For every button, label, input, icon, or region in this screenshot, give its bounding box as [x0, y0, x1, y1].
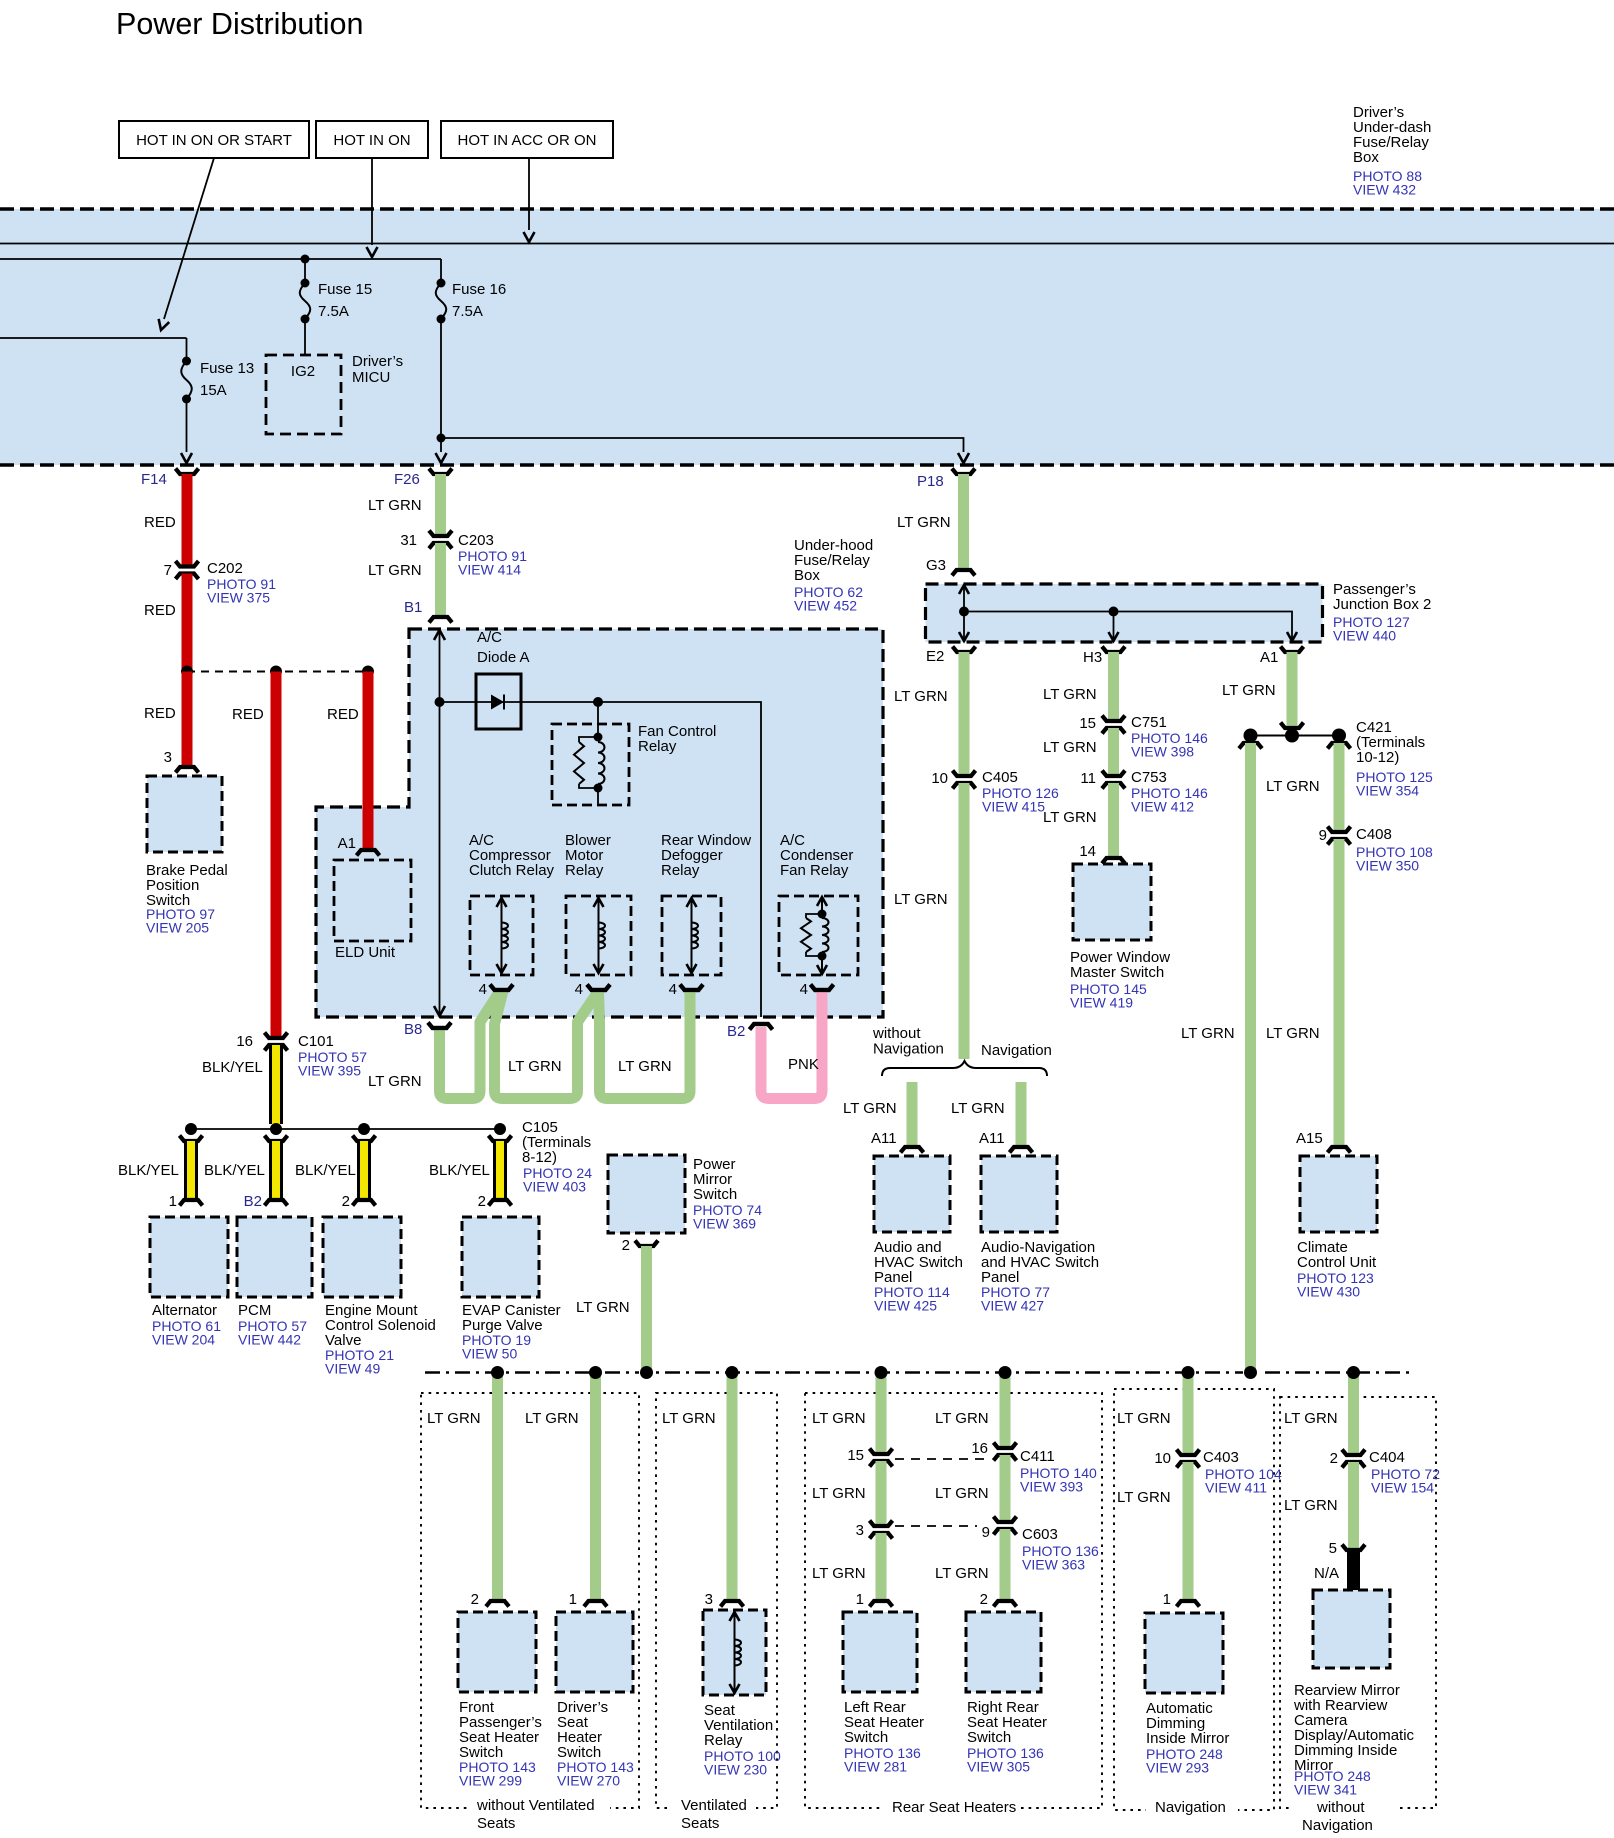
svg-text:LT GRN: LT GRN — [812, 1485, 866, 1502]
svg-text:F14: F14 — [141, 471, 167, 488]
A/C diode A box — [476, 674, 521, 729]
svg-text:Seats: Seats — [477, 1815, 515, 1832]
wire PNK U4 relay4 to B2 — [761, 990, 822, 1099]
svg-text:RED: RED — [144, 602, 176, 619]
fuse 13 15A — [186, 338, 188, 359]
audio-navigation and HVAC switch panel box — [981, 1156, 1057, 1232]
wire LT GRN to seat ventilation relay — [727, 1372, 738, 1600]
svg-text:LT GRN: LT GRN — [1043, 686, 1097, 703]
wire LT GRN C404 to pin 5 — [1348, 1462, 1359, 1550]
svg-text:VIEW 281: VIEW 281 — [844, 1759, 907, 1775]
group box Ventilated Seats — [656, 1393, 777, 1808]
wire BLK/YEL branch 2 — [269, 1141, 283, 1199]
A/C compressor clutch relay box — [470, 896, 533, 975]
svg-text:LT GRN: LT GRN — [1117, 1489, 1171, 1506]
svg-text:C408: C408 — [1356, 826, 1392, 843]
svg-text:LT GRN: LT GRN — [427, 1410, 481, 1427]
svg-text:A1: A1 — [1260, 649, 1278, 666]
C105 branch dot 2 — [270, 1123, 282, 1135]
svg-text:15: 15 — [847, 1447, 864, 1464]
svg-text:10: 10 — [931, 770, 948, 787]
svg-text:LT GRN: LT GRN — [508, 1058, 562, 1075]
bus junction dot 8 — [1244, 1366, 1257, 1379]
svg-text:LT GRN: LT GRN — [1043, 739, 1097, 756]
svg-text:Ventilated: Ventilated — [681, 1797, 747, 1814]
svg-text:16: 16 — [236, 1033, 253, 1050]
bus crossing halo C421 wire — [1243, 1365, 1259, 1380]
junction box internal wires — [963, 585, 965, 641]
power window master switch box — [1073, 864, 1151, 940]
svg-text:1: 1 — [169, 1193, 177, 1210]
svg-text:4: 4 — [479, 981, 487, 998]
svg-text:VIEW 395: VIEW 395 — [298, 1063, 361, 1079]
svg-text:VIEW 299: VIEW 299 — [459, 1773, 522, 1789]
bus junction dot 3 — [640, 1366, 653, 1379]
svg-text:LT GRN: LT GRN — [1284, 1410, 1338, 1427]
svg-text:HOT IN ON: HOT IN ON — [333, 132, 410, 149]
svg-text:Fuse 16: Fuse 16 — [452, 281, 506, 298]
fan control relay box — [552, 724, 629, 805]
svg-text:LT GRN: LT GRN — [894, 688, 948, 705]
svg-text:VIEW 305: VIEW 305 — [967, 1759, 1030, 1775]
box HOT IN ON — [316, 121, 428, 158]
svg-text:A/C: A/C — [477, 629, 502, 646]
svg-text:Junction Box 2: Junction Box 2 — [1333, 596, 1431, 613]
svg-text:VIEW 398: VIEW 398 — [1131, 744, 1194, 760]
svg-text:ELD Unit: ELD Unit — [335, 944, 396, 961]
bus junction dot 7 — [1182, 1366, 1195, 1379]
svg-text:BLK/YEL: BLK/YEL — [202, 1059, 263, 1076]
svg-text:2: 2 — [622, 1237, 630, 1254]
arrow HOT IN ACC OR ON to bus 1 — [528, 158, 530, 230]
svg-text:VIEW 403: VIEW 403 — [523, 1179, 586, 1195]
front passenger seat heater switch box — [458, 1612, 536, 1692]
bus junction dot 6 — [999, 1366, 1012, 1379]
IG2 box Driver's MICU — [266, 355, 341, 434]
svg-text:MICU: MICU — [352, 369, 390, 386]
bus junction dot 1 — [491, 1366, 504, 1379]
wire BLK/YEL branch 1 — [184, 1141, 198, 1199]
band top dashed border — [0, 207, 1614, 210]
wire LT GRN C421 to C408 — [1334, 743, 1345, 832]
alternator box — [150, 1217, 228, 1297]
right rear seat heater switch box — [966, 1612, 1041, 1692]
svg-text:Navigation: Navigation — [873, 1041, 944, 1058]
arrow HOT IN ON to bus 2 — [371, 158, 373, 245]
band bottom dashed border — [0, 463, 1614, 466]
C105 branch dot 1 — [185, 1123, 197, 1135]
svg-text:Alternator: Alternator — [152, 1302, 217, 1319]
wire LT GRN C405 to nav split — [959, 783, 970, 1059]
svg-text:C403: C403 — [1203, 1449, 1239, 1466]
wire LT GRN to C411 pin 15 — [876, 1372, 887, 1454]
svg-text:C101: C101 — [298, 1033, 334, 1050]
svg-text:Switch: Switch — [967, 1729, 1011, 1746]
svg-text:LT GRN: LT GRN — [1266, 778, 1320, 795]
fuse 15 7.5A — [301, 255, 310, 264]
wire LT GRN C421 to bus — [1245, 743, 1256, 1372]
wire LT GRN U2 relay1 to relay2 pin4 — [495, 991, 599, 1099]
bus line 1 (ACC) — [0, 243, 1614, 245]
audio and HVAC switch panel box — [874, 1156, 950, 1232]
wire LT GRN to C411 pin 16 — [1000, 1372, 1011, 1448]
connector C411 pin 15 — [870, 1449, 893, 1455]
C105 branch connector 2 — [265, 1136, 288, 1142]
svg-text:Box: Box — [794, 567, 820, 584]
svg-text:3: 3 — [164, 749, 172, 766]
bus line 2 (IGN) — [0, 258, 441, 260]
svg-text:C411: C411 — [1020, 1448, 1055, 1465]
wire LT GRN to C403 — [1183, 1372, 1194, 1455]
wire N/A black to rearview mirror — [1347, 1550, 1360, 1592]
svg-text:11: 11 — [1080, 770, 1096, 787]
power mirror switch box — [608, 1155, 685, 1233]
svg-text:LT GRN: LT GRN — [576, 1299, 630, 1316]
under-dash fuse/relay box band — [0, 209, 1614, 465]
svg-text:15A: 15A — [200, 382, 227, 399]
seat ventilation relay box — [703, 1610, 766, 1695]
svg-text:10: 10 — [1154, 1450, 1171, 1467]
svg-text:VIEW 50: VIEW 50 — [462, 1346, 517, 1362]
svg-text:LT GRN: LT GRN — [843, 1100, 897, 1117]
svg-text:VIEW 393: VIEW 393 — [1020, 1479, 1083, 1495]
svg-text:B2: B2 — [727, 1023, 745, 1040]
svg-text:LT GRN: LT GRN — [368, 497, 422, 514]
connector C405 pin 10 — [953, 771, 976, 777]
C105 branch dot 3 — [358, 1123, 370, 1135]
brake pedal position switch box — [147, 776, 222, 852]
automatic dimming inside mirror box — [1145, 1613, 1223, 1693]
svg-text:VIEW 375: VIEW 375 — [207, 590, 270, 606]
svg-text:31: 31 — [400, 532, 417, 549]
svg-text:BLK/YEL: BLK/YEL — [118, 1162, 179, 1179]
svg-text:P18: P18 — [917, 473, 944, 490]
svg-text:C405: C405 — [982, 769, 1018, 786]
wire B1 to B8 internal — [439, 630, 441, 1016]
svg-text:VIEW 363: VIEW 363 — [1022, 1557, 1085, 1573]
svg-text:LT GRN: LT GRN — [1117, 1410, 1171, 1427]
diode symbol — [491, 695, 504, 710]
svg-text:VIEW 49: VIEW 49 — [325, 1361, 380, 1377]
svg-text:Switch: Switch — [693, 1186, 737, 1203]
svg-text:4: 4 — [575, 981, 583, 998]
svg-text:A11: A11 — [871, 1130, 897, 1147]
svg-text:PCM: PCM — [238, 1302, 271, 1319]
svg-text:16: 16 — [971, 1440, 988, 1457]
svg-text:VIEW 440: VIEW 440 — [1333, 628, 1396, 644]
svg-text:IG2: IG2 — [291, 363, 315, 380]
junction dot C — [362, 666, 374, 678]
svg-text:Fan Relay: Fan Relay — [780, 862, 849, 879]
svg-text:3: 3 — [705, 1591, 713, 1608]
svg-text:Control Unit: Control Unit — [1297, 1254, 1377, 1271]
engine mount control solenoid valve box — [323, 1217, 401, 1297]
svg-text:Switch: Switch — [844, 1729, 888, 1746]
C105 branch connector 3 — [353, 1136, 376, 1142]
svg-text:3: 3 — [856, 1522, 864, 1539]
svg-text:LT GRN: LT GRN — [525, 1410, 579, 1427]
wire BLK/YEL C101 to C105 line — [269, 1045, 283, 1124]
wire RED C202 to junction — [182, 574, 193, 672]
svg-text:B2: B2 — [244, 1193, 262, 1210]
bracket overdraw B8 — [428, 1023, 451, 1029]
dashed link C603 — [895, 1525, 977, 1527]
svg-text:VIEW 419: VIEW 419 — [1070, 995, 1133, 1011]
rear window defogger relay box — [662, 896, 721, 975]
svg-text:10-12): 10-12) — [1356, 749, 1399, 766]
svg-text:Fuse 13: Fuse 13 — [200, 360, 254, 377]
svg-text:C203: C203 — [458, 532, 494, 549]
svg-text:A11: A11 — [979, 1130, 1005, 1147]
svg-text:7.5A: 7.5A — [318, 303, 349, 320]
navigation split brace — [882, 1061, 1047, 1076]
svg-text:B8: B8 — [404, 1021, 422, 1038]
connector C404 pin 2 — [1342, 1450, 1365, 1456]
svg-text:14: 14 — [1079, 843, 1096, 860]
wire LT GRN C203 to B1 — [435, 543, 446, 617]
internal wire to A/C condenser branch — [440, 702, 762, 1017]
fuse 16 7.5A — [440, 259, 442, 281]
svg-text:BLK/YEL: BLK/YEL — [204, 1162, 265, 1179]
svg-text:Diode A: Diode A — [477, 649, 530, 666]
svg-text:Inside Mirror: Inside Mirror — [1146, 1730, 1229, 1747]
svg-text:Navigation: Navigation — [1155, 1799, 1226, 1816]
wire LT GRN to audio-nav hvac panel A11 — [1016, 1082, 1027, 1146]
C105 branch dot 4 — [494, 1123, 506, 1135]
svg-text:LT GRN: LT GRN — [618, 1058, 672, 1075]
svg-text:without: without — [872, 1025, 921, 1042]
svg-text:C603: C603 — [1022, 1526, 1058, 1543]
svg-text:A15: A15 — [1296, 1130, 1323, 1147]
svg-text:RED: RED — [232, 706, 264, 723]
svg-text:VIEW 270: VIEW 270 — [557, 1773, 620, 1789]
svg-text:VIEW 412: VIEW 412 — [1131, 799, 1194, 815]
svg-text:HOT IN ON OR START: HOT IN ON OR START — [136, 132, 292, 149]
svg-text:8-12): 8-12) — [522, 1149, 557, 1166]
connector C751 pin 15 — [1102, 716, 1125, 722]
wire LT GRN C603-9 to right rear switch — [1000, 1529, 1011, 1600]
svg-text:Power Distribution: Power Distribution — [116, 7, 364, 41]
svg-text:VIEW 442: VIEW 442 — [238, 1332, 301, 1348]
svg-text:N/A: N/A — [1314, 1565, 1339, 1582]
wire LT GRN power mirror to bus — [641, 1246, 652, 1372]
svg-text:15: 15 — [1079, 715, 1096, 732]
wire LT GRN A1 to C421 — [1287, 652, 1298, 727]
driver's seat heater switch box — [556, 1612, 633, 1692]
svg-text:LT GRN: LT GRN — [935, 1565, 989, 1582]
svg-text:9: 9 — [1319, 827, 1327, 844]
svg-text:LT GRN: LT GRN — [812, 1410, 866, 1427]
svg-text:Master Switch: Master Switch — [1070, 964, 1164, 981]
svg-text:Navigation: Navigation — [1302, 1817, 1373, 1834]
bus line 3 (start) — [0, 337, 187, 339]
rearview mirror box — [1313, 1590, 1390, 1668]
svg-text:LT GRN: LT GRN — [368, 562, 422, 579]
wire LT GRN to C404 — [1348, 1372, 1359, 1455]
dashed link C411 — [895, 1458, 990, 1460]
svg-text:1: 1 — [856, 1591, 864, 1608]
svg-text:7.5A: 7.5A — [452, 303, 483, 320]
bus junction dot 4 — [726, 1366, 739, 1379]
ELD unit box — [334, 860, 411, 941]
svg-text:HOT IN ACC OR ON: HOT IN ACC OR ON — [458, 132, 597, 149]
junction dot B — [270, 666, 282, 678]
wire LT GRN to driver's seat heater switch — [590, 1372, 601, 1600]
svg-text:Navigation: Navigation — [981, 1042, 1052, 1059]
svg-text:VIEW 354: VIEW 354 — [1356, 783, 1419, 799]
svg-text:LT GRN: LT GRN — [1181, 1025, 1235, 1042]
connector C753 pin 11 — [1102, 771, 1125, 777]
group box Rear Seat Heaters — [805, 1393, 1102, 1808]
wire LT GRN C411-15 to C603-3 — [876, 1461, 887, 1526]
wire RED to ELD pin A1 — [363, 672, 374, 847]
svg-text:LT GRN: LT GRN — [812, 1565, 866, 1582]
wire LT GRN H3 to C751 — [1108, 652, 1119, 721]
svg-text:VIEW 230: VIEW 230 — [704, 1762, 767, 1778]
svg-text:Driver’s: Driver’s — [352, 353, 403, 370]
svg-text:RED: RED — [144, 514, 176, 531]
svg-text:VIEW 432: VIEW 432 — [1353, 182, 1416, 198]
connector C411 pin 16 — [994, 1443, 1017, 1449]
svg-text:5: 5 — [1329, 1540, 1337, 1557]
connector C203 pin 31 — [429, 531, 452, 537]
svg-text:1: 1 — [569, 1591, 577, 1608]
wire LT GRN F26 to C203 — [435, 474, 446, 536]
svg-text:VIEW 204: VIEW 204 — [152, 1332, 215, 1348]
bus junction dot 9 — [1347, 1366, 1360, 1379]
group box without Ventilated Seats — [421, 1393, 639, 1808]
wire fuse16 to P18 drop — [437, 434, 446, 443]
svg-text:G3: G3 — [926, 557, 946, 574]
connector C603 pin 9 — [994, 1517, 1017, 1523]
svg-text:LT GRN: LT GRN — [1266, 1025, 1320, 1042]
A/C condenser fan relay box — [779, 896, 858, 975]
svg-text:BLK/YEL: BLK/YEL — [295, 1162, 356, 1179]
svg-text:without Ventilated: without Ventilated — [476, 1797, 595, 1814]
wire LT GRN C753 to power window master switch — [1108, 783, 1119, 857]
svg-text:C202: C202 — [207, 560, 243, 577]
svg-text:RED: RED — [327, 706, 359, 723]
wire LT GRN C603-3 to left rear switch — [876, 1533, 887, 1600]
bracket overdraw B2 — [750, 1024, 773, 1030]
svg-text:LT GRN: LT GRN — [935, 1410, 989, 1427]
svg-text:LT GRN: LT GRN — [1043, 809, 1097, 826]
svg-text:LT GRN: LT GRN — [1222, 682, 1276, 699]
svg-text:2: 2 — [342, 1193, 350, 1210]
svg-text:2: 2 — [1330, 1450, 1338, 1467]
svg-text:Fuse 15: Fuse 15 — [318, 281, 372, 298]
bracket overdraw relay pins 4 — [490, 985, 513, 991]
arrow HOT IN ON OR START to bus 3 — [164, 158, 214, 319]
svg-text:7: 7 — [164, 562, 172, 579]
svg-text:VIEW 411: VIEW 411 — [1205, 1480, 1267, 1496]
svg-text:Box: Box — [1353, 149, 1379, 166]
svg-text:Clutch Relay: Clutch Relay — [469, 862, 555, 879]
group box Navigation — [1114, 1389, 1274, 1810]
left rear seat heater switch box — [843, 1612, 917, 1692]
svg-text:Relay: Relay — [638, 738, 677, 755]
C105 branch connector 1 — [180, 1136, 203, 1142]
svg-text:LT GRN: LT GRN — [935, 1485, 989, 1502]
svg-text:VIEW 414: VIEW 414 — [458, 562, 521, 578]
svg-text:VIEW 415: VIEW 415 — [982, 799, 1045, 815]
svg-text:H3: H3 — [1083, 649, 1102, 666]
climate control unit box — [1300, 1156, 1377, 1232]
svg-text:RED: RED — [144, 705, 176, 722]
svg-text:BLK/YEL: BLK/YEL — [429, 1162, 490, 1179]
wire RED to C101 — [271, 672, 282, 1039]
svg-text:PNK: PNK — [788, 1056, 819, 1073]
svg-text:VIEW 430: VIEW 430 — [1297, 1284, 1360, 1300]
connector C202 pin 7 — [176, 561, 199, 567]
dashed junction link — [187, 671, 368, 673]
group box without Navigation — [1280, 1397, 1436, 1808]
svg-text:4: 4 — [800, 981, 808, 998]
svg-text:1: 1 — [1163, 1591, 1171, 1608]
svg-text:C753: C753 — [1131, 769, 1167, 786]
svg-text:2: 2 — [478, 1193, 486, 1210]
bus junction dot 2 — [589, 1366, 602, 1379]
wire RED into ELD extension — [363, 800, 374, 850]
wire LT GRN U3 relay2 to relay3 pin4 — [599, 991, 691, 1099]
connector C408 pin 9 — [1328, 827, 1351, 833]
C105 branch connector 4 — [489, 1136, 512, 1142]
svg-text:VIEW 205: VIEW 205 — [146, 920, 209, 936]
svg-text:LT GRN: LT GRN — [1284, 1497, 1338, 1514]
svg-text:F26: F26 — [394, 471, 420, 488]
svg-text:Seats: Seats — [681, 1815, 719, 1832]
svg-text:LT GRN: LT GRN — [897, 514, 951, 531]
wire LT GRN C403 to auto dimming mirror — [1183, 1462, 1194, 1600]
junction dot diode out — [593, 697, 603, 707]
svg-text:C751: C751 — [1131, 714, 1167, 731]
wire LT GRN to audio hvac panel A11 — [907, 1082, 918, 1146]
wire LT GRN to front passenger seat heater switch — [492, 1372, 503, 1600]
svg-text:VIEW 350: VIEW 350 — [1356, 858, 1419, 874]
svg-text:VIEW 293: VIEW 293 — [1146, 1760, 1209, 1776]
wire RED to brake pedal switch pin 3 — [182, 672, 193, 767]
svg-text:LT GRN: LT GRN — [662, 1410, 716, 1427]
svg-text:4: 4 — [669, 981, 677, 998]
svg-text:LT GRN: LT GRN — [894, 891, 948, 908]
svg-text:Relay: Relay — [565, 862, 604, 879]
passenger's junction box 2 — [926, 584, 1323, 642]
box HOT IN ACC OR ON — [441, 121, 613, 158]
bus crossing halo power mirror wire — [639, 1365, 655, 1380]
junction dot A — [181, 666, 193, 678]
svg-text:E2: E2 — [926, 648, 944, 665]
svg-text:VIEW 427: VIEW 427 — [981, 1298, 1044, 1314]
svg-text:VIEW 369: VIEW 369 — [693, 1216, 756, 1232]
wire BLK/YEL branch 3 — [357, 1141, 371, 1199]
C105 terminal line — [191, 1128, 500, 1130]
svg-text:B1: B1 — [404, 599, 422, 616]
svg-text:2: 2 — [471, 1591, 479, 1608]
connector C421 junction — [1281, 723, 1304, 729]
junction dot B1 line — [435, 697, 445, 707]
EVAP canister purge valve box — [462, 1217, 539, 1297]
svg-text:Relay: Relay — [661, 862, 700, 879]
svg-text:A1: A1 — [338, 835, 356, 852]
blower motor relay box — [566, 896, 631, 975]
svg-text:9: 9 — [982, 1524, 990, 1541]
wire LT GRN P18 to G3 — [958, 474, 969, 570]
svg-text:without: without — [1316, 1799, 1365, 1816]
under-hood fuse/relay box — [316, 629, 883, 1017]
svg-text:LT GRN: LT GRN — [951, 1100, 1005, 1117]
wire LT GRN C411-16 to C603-9 — [1000, 1455, 1011, 1522]
svg-text:Relay: Relay — [704, 1732, 743, 1749]
